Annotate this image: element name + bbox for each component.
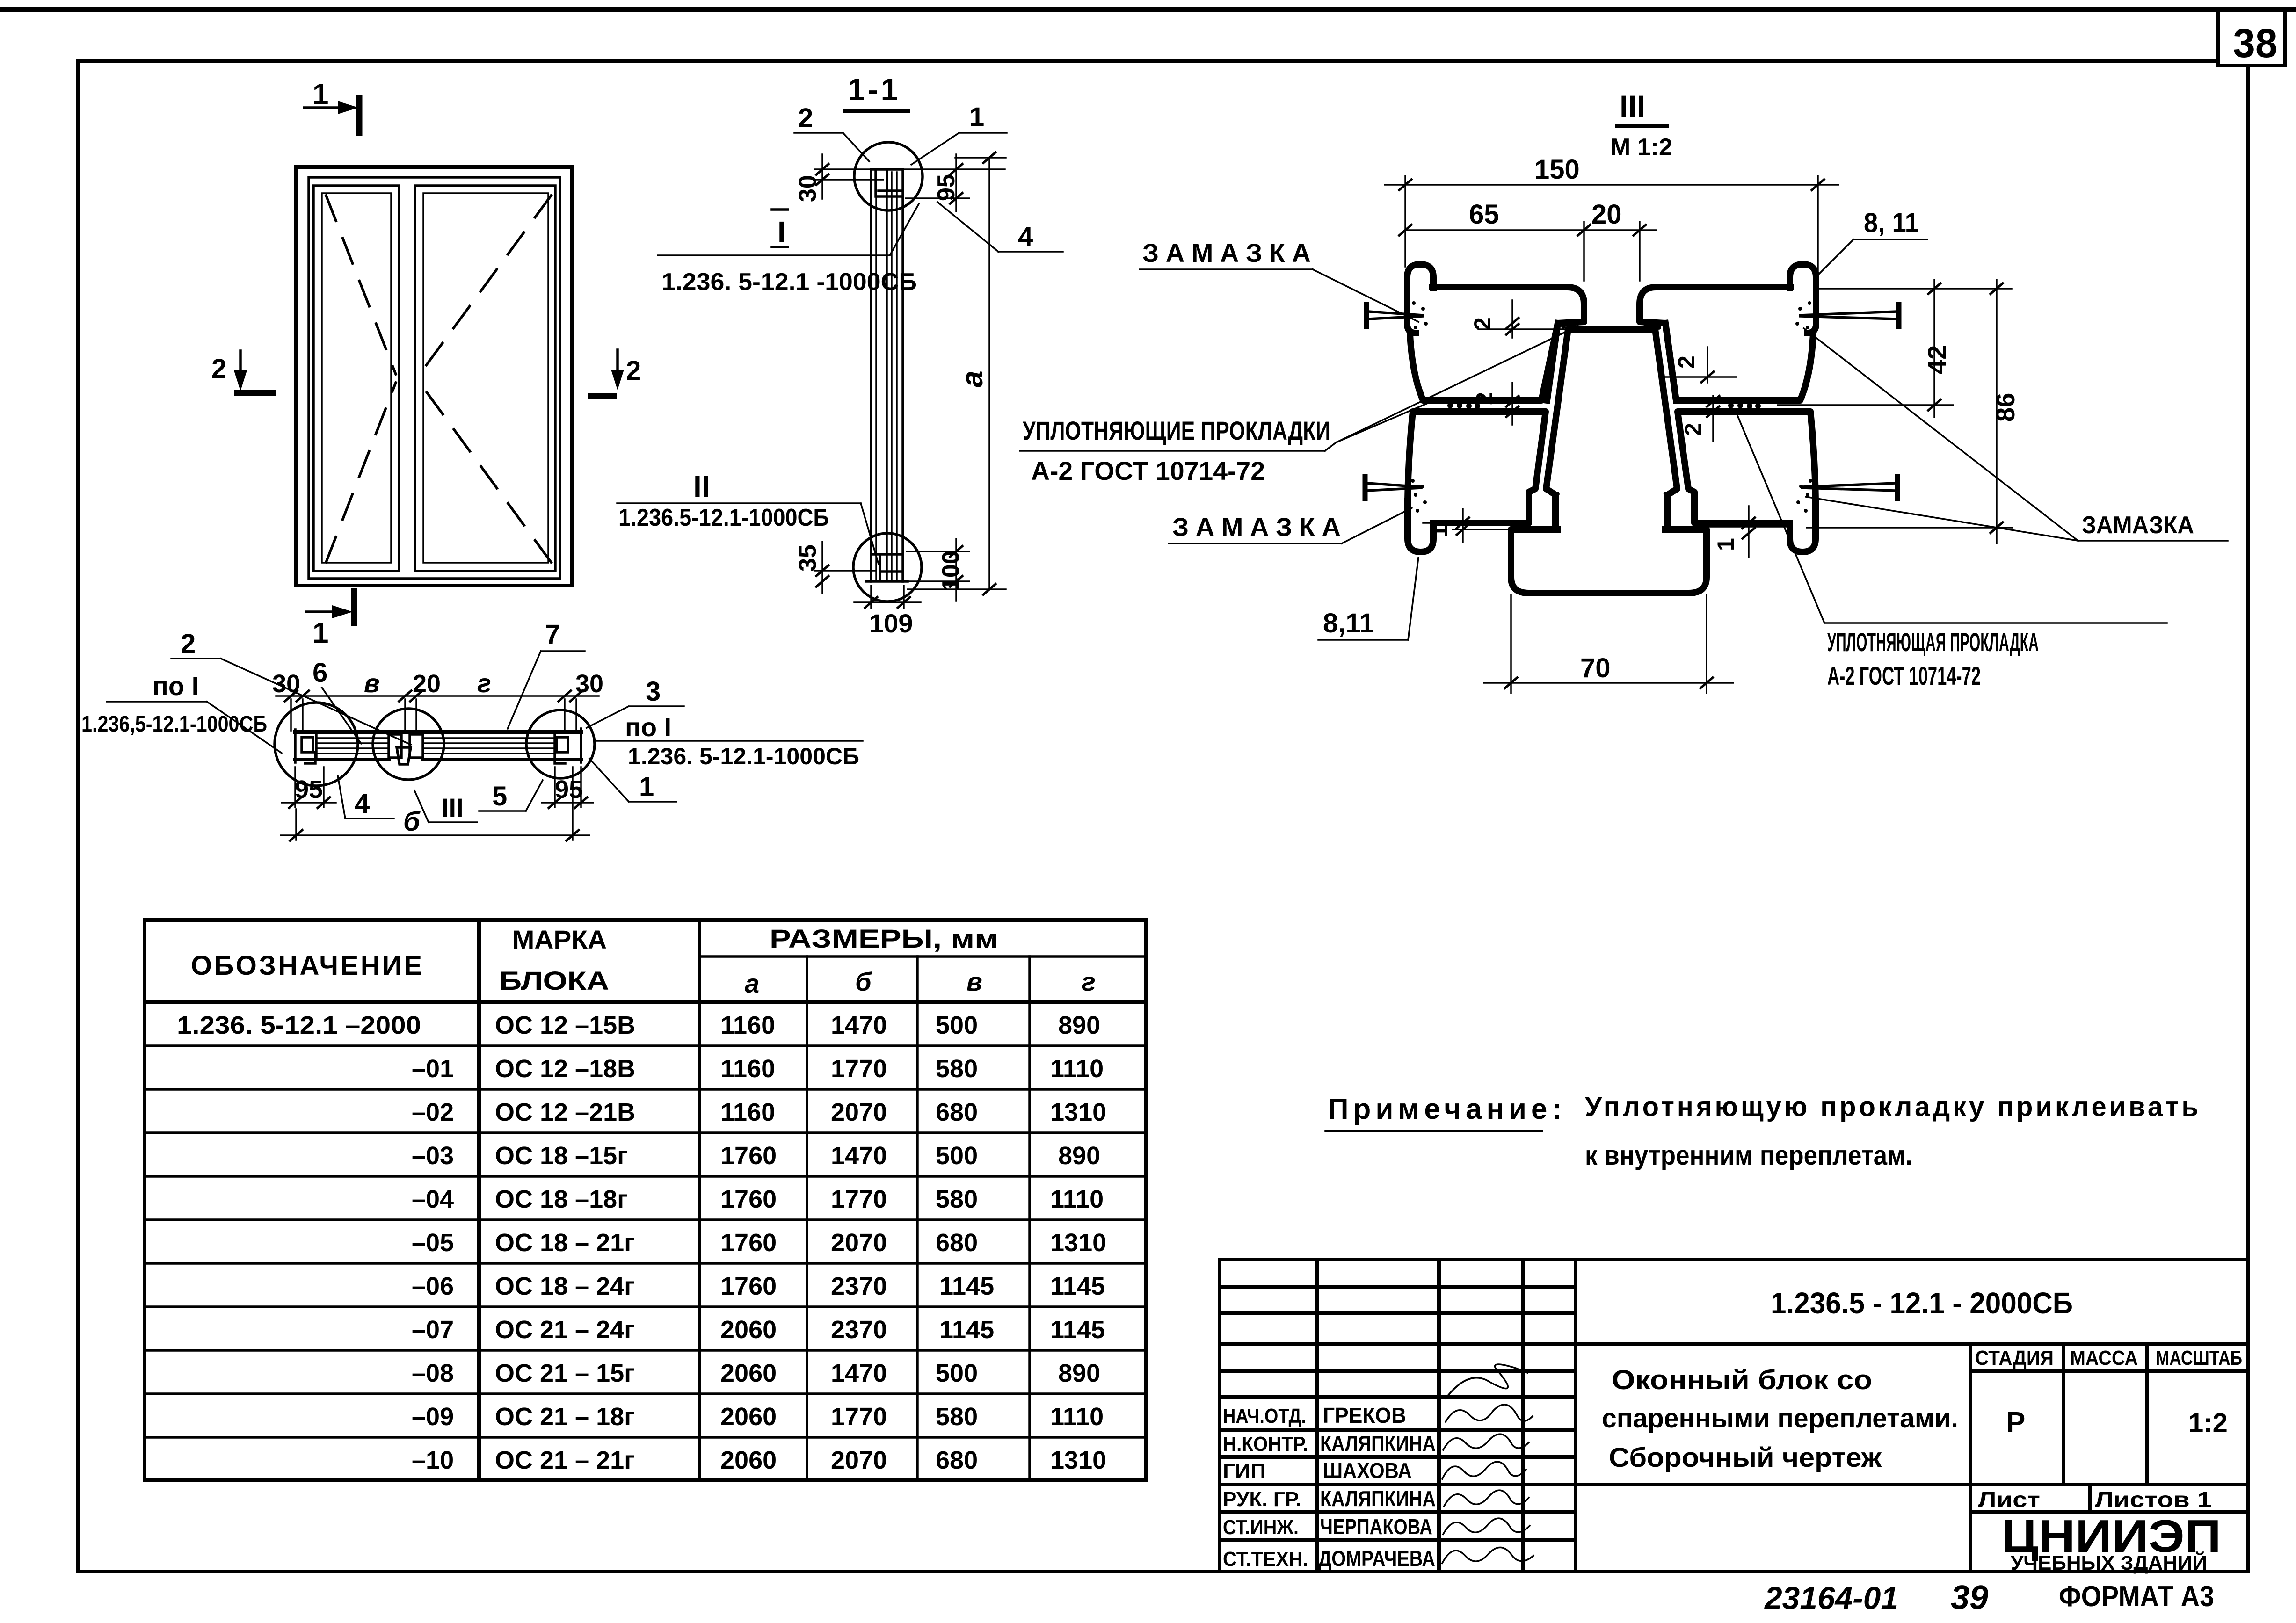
svg-text:1: 1 [639,772,654,802]
plan dimension 95 left [282,767,336,809]
sheet top edge bar [0,7,2296,12]
plan callout 4 [338,775,394,819]
svg-text:500: 500 [936,1359,978,1387]
lower left putty dots [1411,479,1427,513]
svg-text:–05: –05 [412,1229,454,1257]
svg-text:1.236. 5-12.1 –2000: 1.236. 5-12.1 –2000 [177,1011,421,1039]
callout II with leader [617,470,879,564]
svg-text:4: 4 [355,789,370,819]
lower left sash profile [1408,412,1546,523]
plan callout 1 [589,759,676,802]
svg-text:КАЛЯПКИНА: КАЛЯПКИНА [1320,1431,1436,1456]
plan section left end profile [295,730,316,763]
svg-text:ДОМРАЧЕВА: ДОМРАЧЕВА [1318,1546,1435,1571]
svg-text:–08: –08 [412,1359,454,1387]
small dimension 2 upper right [1660,347,1737,383]
svg-text:2: 2 [626,355,641,386]
title block stadia massa masshtab headers [1975,1347,2242,1369]
svg-text:23164-01: 23164-01 [1764,1580,1898,1616]
svg-text:б: б [403,806,421,837]
svg-text:1145: 1145 [939,1316,994,1344]
specification table grid [145,920,1146,1480]
svg-text:1160: 1160 [720,1055,775,1083]
svg-text:580: 580 [936,1185,978,1213]
svg-text:–04: –04 [412,1185,454,1213]
svg-text:1770: 1770 [831,1403,887,1431]
svg-text:РУК. ГР.: РУК. ГР. [1223,1488,1301,1511]
svg-text:–06: –06 [412,1272,454,1300]
svg-text:ОС 21 – 18г: ОС 21 – 18г [495,1403,635,1431]
svg-text:65: 65 [1469,199,1499,230]
dimension 150 [1385,154,1838,327]
svg-text:ФОРМАТ А3: ФОРМАТ А3 [2059,1580,2214,1613]
svg-text:1160: 1160 [720,1098,775,1126]
svg-text:1770: 1770 [831,1185,887,1213]
svg-text:7: 7 [545,619,560,650]
svg-text:СТАДИЯ: СТАДИЯ [1975,1347,2054,1369]
svg-text:II: II [693,470,710,503]
plan section band bottom edge [295,758,581,761]
svg-text:–03: –03 [412,1142,454,1170]
label zamazka top left [1140,238,1418,322]
lower left sash lug [1408,501,1433,552]
svg-text:1: 1 [1713,538,1739,551]
svg-text:1470: 1470 [831,1142,887,1170]
svg-text:680: 680 [936,1098,978,1126]
svg-text:680: 680 [936,1446,978,1474]
section mark 2 left [211,351,276,393]
handwritten signatures [1442,1364,1533,1563]
upper left sash lug [1407,264,1433,333]
section 1-1 top profile block [871,169,903,196]
svg-text:20: 20 [413,670,441,698]
plan dimension b overall [281,767,589,841]
callout 2 top [794,103,869,161]
svg-text:1.236.5 - 12.1 - 2000СБ: 1.236.5 - 12.1 - 2000СБ [1771,1286,2073,1320]
svg-text:95: 95 [295,775,323,804]
svg-text:ОС 12 –18В: ОС 12 –18В [495,1055,635,1083]
small dimension 2 mid right [1680,395,1720,442]
dimension 70 [1484,595,1733,693]
detail III title [1610,89,1672,161]
lower right screw [1802,474,1897,501]
plan section band glass lines [316,738,555,754]
svg-text:в: в [966,967,982,996]
plan callout III [414,790,477,822]
svg-text:Оконный блок со: Оконный блок со [1612,1365,1872,1395]
frame box left extension line [1453,529,1510,530]
svg-text:I: I [777,215,786,249]
upper right screw [1800,302,1899,329]
small dimension 1 left [1423,509,1503,543]
svg-text:ОС 18 – 24г: ОС 18 – 24г [495,1272,635,1300]
table header marka bloka [499,925,609,995]
plan callout 6 [312,658,361,744]
svg-text:1145: 1145 [939,1272,994,1300]
svg-text:20: 20 [1591,199,1622,230]
small dimension 2 upper left [1469,300,1568,338]
svg-text:2: 2 [1471,392,1497,405]
svg-text:СТ.ТЕХН.: СТ.ТЕХН. [1223,1548,1308,1571]
title block outer border [1220,1260,2248,1572]
left sash outer contour [313,186,399,571]
svg-text:НАЧ.ОТД.: НАЧ.ОТД. [1223,1405,1306,1427]
upper right sash lug [1790,264,1816,333]
callout 8,11 bottom left [1318,558,1418,640]
svg-text:890: 890 [1058,1011,1100,1039]
svg-text:1.236. 5-12.1-1000СБ: 1.236. 5-12.1-1000СБ [628,743,859,769]
svg-text:1760: 1760 [720,1229,777,1257]
plan label po I left [81,671,282,753]
section 1-1 bottom profile block [866,554,908,581]
svg-text:2: 2 [181,629,196,659]
svg-text:1160: 1160 [720,1011,775,1039]
svg-text:1:2: 1:2 [2188,1408,2228,1438]
svg-text:500: 500 [936,1142,978,1170]
dimension 86 [1807,280,2020,543]
svg-text:Листов 1: Листов 1 [2095,1487,2212,1512]
upper right sash slant edge [1665,323,1676,400]
lower right sash profile [1678,412,1816,523]
plan detail circle left [275,703,358,786]
svg-text:a: a [955,370,989,387]
right ledge gasket dots [1643,324,1661,330]
svg-text:70: 70 [1580,653,1611,683]
svg-text:1145: 1145 [1050,1316,1105,1344]
svg-text:–01: –01 [412,1055,454,1083]
svg-text:2: 2 [1680,423,1706,436]
svg-text:РАЗМЕРЫ, мм: РАЗМЕРЫ, мм [770,924,998,953]
svg-text:ОС 18 –18г: ОС 18 –18г [495,1185,628,1213]
table subheader a b v g [745,967,1096,998]
svg-text:ШАХОВА: ШАХОВА [1323,1458,1412,1483]
svg-text:2070: 2070 [831,1446,887,1474]
section mark 1 bottom [306,588,354,649]
svg-text:5: 5 [492,781,507,811]
svg-text:ОС 18 – 21г: ОС 18 – 21г [495,1229,635,1257]
svg-text:к внутренним переплетам.: к внутренним переплетам. [1585,1140,1912,1171]
svg-text:680: 680 [936,1229,978,1257]
frame box right extension line [1707,526,1787,528]
svg-text:39: 39 [1951,1579,1988,1616]
svg-text:1: 1 [312,617,328,649]
svg-text:1.236.5-12.1-1000СБ: 1.236.5-12.1-1000СБ [618,504,829,531]
svg-text:1310: 1310 [1050,1446,1106,1474]
note primechanie [1326,1092,2198,1171]
svg-text:А-2 ГОСТ 10714-72: А-2 ГОСТ 10714-72 [1031,456,1265,485]
svg-text:1470: 1470 [831,1011,887,1039]
svg-text:2070: 2070 [831,1229,887,1257]
lower right sash lug [1790,501,1816,552]
svg-text:Уплотняющую прокладку приклеив: Уплотняющую прокладку приклеивать [1585,1092,2198,1122]
svg-text:Сборочный чертеж: Сборочный чертеж [1609,1442,1882,1473]
dimension 95 top [906,154,969,211]
svg-text:по I: по I [625,712,671,742]
svg-text:1.236. 5-12.1 -1000СБ: 1.236. 5-12.1 -1000СБ [661,268,917,296]
callout 1 top [911,102,1007,165]
upper right putty dots [1795,301,1811,329]
title block grid lines [1220,1260,2248,1572]
svg-text:1760: 1760 [720,1142,777,1170]
section mark 1 top [304,78,359,136]
small dimension 1 right [1713,506,1756,558]
left sash inner contour [322,193,391,563]
svg-text:III: III [1620,89,1645,123]
svg-text:1470: 1470 [831,1359,887,1387]
svg-text:СТ.ИНЖ.: СТ.ИНЖ. [1223,1516,1299,1539]
title block list row [1978,1487,2212,1512]
svg-text:1310: 1310 [1050,1229,1106,1257]
svg-text:8, 11: 8, 11 [1864,208,1919,238]
svg-text:1110: 1110 [1050,1055,1104,1083]
svg-text:2060: 2060 [720,1403,777,1431]
svg-text:1145: 1145 [1050,1272,1105,1300]
upper left sash profile [1410,287,1584,400]
upper left sash slant edge [1547,323,1558,400]
svg-text:38: 38 [2233,21,2278,66]
svg-text:35: 35 [794,544,821,572]
svg-text:–07: –07 [412,1316,454,1344]
svg-text:спаренными переплетами.: спаренными переплетами. [1602,1403,1958,1434]
svg-text:890: 890 [1058,1359,1100,1387]
svg-text:109: 109 [869,609,913,638]
svg-text:95: 95 [555,775,583,804]
svg-text:ОС 21 – 15г: ОС 21 – 15г [495,1359,635,1387]
plan callout 5 [479,780,543,811]
plan section impost profile [389,734,423,764]
frame box profile [1511,529,1707,593]
section 1-1 sash band verticals [871,169,903,581]
svg-text:1760: 1760 [720,1272,777,1300]
svg-text:2060: 2060 [720,1316,777,1344]
svg-text:МАСШТАБ: МАСШТАБ [2156,1347,2242,1369]
svg-text:1770: 1770 [831,1055,887,1083]
callout 8,11 top right [1814,208,1927,279]
svg-text:Н.КОНТР.: Н.КОНТР. [1223,1433,1308,1456]
window elevation frame inner line [309,177,560,579]
sheet number box [2218,10,2285,65]
svg-text:2070: 2070 [831,1098,887,1126]
title block organization [2001,1510,2221,1574]
lower left screw [1365,474,1421,501]
small dimension 2 mid left [1471,383,1519,425]
svg-text:42: 42 [1922,345,1952,374]
plan top dimension chain [272,668,603,731]
dimension 100 bottom [907,539,969,601]
svg-text:УПЛОТНЯЮЩАЯ ПРОКЛАДКА: УПЛОТНЯЮЩАЯ ПРОКЛАДКА [1827,627,2039,657]
svg-text:1760: 1760 [720,1185,777,1213]
svg-text:УЧЕБНЫХ ЗДАНИЙ: УЧЕБНЫХ ЗДАНИЙ [2011,1551,2207,1574]
svg-text:ЧЕРПАКОВА: ЧЕРПАКОВА [1320,1514,1432,1539]
svg-text:ОС 18 –15г: ОС 18 –15г [495,1142,628,1170]
label zamazka bottom left [1169,508,1412,543]
svg-text:30: 30 [575,670,603,698]
right sash inner contour [423,193,548,563]
svg-text:А-2 ГОСТ 10714-72: А-2 ГОСТ 10714-72 [1827,661,1981,690]
svg-text:8,11: 8,11 [1323,608,1374,638]
svg-text:2060: 2060 [720,1446,777,1474]
left sash opening symbol dashed [326,196,396,562]
svg-text:М 1:2: М 1:2 [1610,134,1672,161]
svg-text:по I: по I [153,671,199,701]
svg-text:МАРКА: МАРКА [512,925,607,954]
svg-text:ОС 21 – 21г: ОС 21 – 21г [495,1446,635,1474]
svg-text:580: 580 [936,1403,978,1431]
section 1-1 top detail circle [854,142,923,210]
svg-text:ОС 12 –15В: ОС 12 –15В [495,1011,635,1039]
dimension 65 [1398,199,1591,281]
upper right sash profile [1640,287,1813,400]
svg-text:Р: Р [2006,1406,2025,1439]
table data rows [177,1011,1106,1474]
svg-text:ОС 21 – 24г: ОС 21 – 24г [495,1316,635,1344]
svg-text:2: 2 [1469,317,1496,330]
left mid gasket dots [1447,403,1480,409]
dimension 42 [1778,280,2012,417]
plan section band top edge [295,730,581,734]
lower right putty dots [1796,479,1812,513]
svg-text:ГИП: ГИП [1223,1460,1266,1483]
dimension a vertical [908,152,1006,595]
svg-text:ЗАМАЗКА: ЗАМАЗКА [2082,512,2194,539]
svg-text:3: 3 [646,676,661,707]
svg-text:б: б [855,967,872,996]
impost profile [1546,329,1677,529]
svg-text:УПЛОТНЯЮЩИЕ ПРОКЛАДКИ: УПЛОТНЯЮЩИЕ ПРОКЛАДКИ [1023,416,1330,445]
svg-text:III: III [442,793,464,822]
svg-text:г: г [477,668,491,698]
svg-text:1: 1 [969,102,984,132]
plan section right end profile [555,729,581,763]
svg-text:2060: 2060 [720,1359,777,1387]
callout I with leader [658,204,919,255]
section mark 2 right [588,350,641,396]
svg-text:1.236,5-12.1-1000СБ: 1.236,5-12.1-1000СБ [81,712,267,737]
svg-text:a: a [745,969,759,998]
svg-text:ОС 12 –21В: ОС 12 –21В [495,1098,635,1126]
title block drawing name [1602,1365,1958,1473]
svg-text:2370: 2370 [831,1272,887,1300]
right sash outer contour [415,186,555,571]
svg-text:МАССА: МАССА [2070,1347,2138,1369]
dimension 109 bottom [854,586,921,638]
svg-text:ГРЕКОВ: ГРЕКОВ [1323,1403,1406,1427]
svg-text:1-1: 1-1 [848,72,901,107]
left ledge gasket dots [1561,324,1580,330]
title block signature rows labels [1223,1405,1308,1571]
dimension 20 [1584,199,1656,281]
right mid gasket dots [1728,403,1761,409]
svg-text:2: 2 [211,354,226,384]
label sealing gasket bottom right [1735,409,2167,690]
upper left screw [1366,302,1423,329]
section 1-1 title [845,72,908,111]
window elevation outer frame [296,167,572,586]
plan callout 2 [171,629,411,745]
svg-text:–09: –09 [412,1403,454,1431]
plan detail circle middle [373,709,444,780]
svg-text:–10: –10 [412,1446,454,1474]
svg-text:500: 500 [936,1011,978,1039]
svg-text:г: г [1082,967,1096,996]
svg-text:КАЛЯПКИНА: КАЛЯПКИНА [1320,1486,1436,1511]
section 1-1 bottom detail circle [853,533,922,601]
svg-text:890: 890 [1058,1142,1100,1170]
upper left putty dots [1412,301,1428,329]
svg-text:–02: –02 [412,1098,454,1126]
svg-text:1110: 1110 [1050,1185,1104,1213]
svg-text:ОБОЗНАЧЕНИЕ: ОБОЗНАЧЕНИЕ [191,950,422,981]
plan dimension 95 right [542,767,593,809]
svg-text:1: 1 [312,78,328,110]
plan callout 7 [508,619,585,729]
plan label po I right [595,712,863,769]
svg-text:2: 2 [798,103,813,133]
plan callout 3 [587,676,684,728]
svg-text:2: 2 [1673,355,1700,369]
title block signature names [1318,1403,1436,1571]
svg-text:1110: 1110 [1050,1403,1104,1431]
dimension 30 top [794,154,1005,202]
svg-text:6: 6 [312,658,327,688]
label zamazka right [1804,328,2228,541]
svg-text:БЛОКА: БЛОКА [499,966,609,995]
svg-text:Лист: Лист [1978,1487,2040,1512]
right sash opening symbol dashed [420,196,551,562]
svg-text:4: 4 [1018,222,1033,252]
plan detail circle right [526,710,595,778]
svg-text:150: 150 [1534,154,1580,185]
svg-text:1310: 1310 [1050,1098,1106,1126]
svg-text:1: 1 [1426,525,1453,538]
label sealing gaskets [1020,331,1567,485]
dimension 35 bottom [794,542,875,593]
svg-text:86: 86 [1991,393,2020,422]
svg-text:в: в [364,668,380,698]
svg-text:580: 580 [936,1055,978,1083]
callout 4 [937,202,1063,252]
svg-text:2370: 2370 [831,1316,887,1344]
